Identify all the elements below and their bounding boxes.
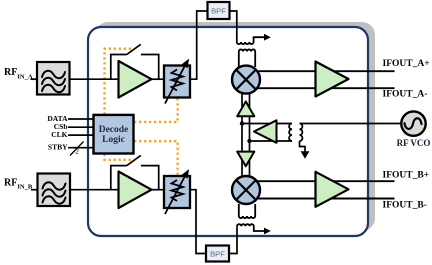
wire CSb <box>68 126 94 128</box>
wire filter B to amp B <box>70 189 120 191</box>
svg-text:Decode: Decode <box>99 125 129 135</box>
attenuator AT_B zigzag <box>172 180 184 201</box>
wire filter A to amp A <box>70 78 121 80</box>
wire T3 to RF VCO <box>300 123 402 125</box>
control dotted: decode to switch B <box>105 154 134 160</box>
chip body U1 <box>88 27 368 236</box>
node dot right rail <box>247 139 251 143</box>
arrow T2 primary <box>264 228 271 235</box>
wire T3 to ground <box>300 141 306 152</box>
transformer T2 primary (bottom) <box>237 224 265 231</box>
wire CLK <box>68 134 94 136</box>
attenuator AT_B arrow <box>165 176 185 214</box>
svg-text:CLK: CLK <box>51 130 67 139</box>
svg-text:IFOUT_B-: IFOUT_B- <box>383 201 427 211</box>
decode logic box <box>94 115 134 154</box>
IF amp B <box>316 172 349 207</box>
wire RF_IN_A to filter A <box>31 78 38 80</box>
bus slash STBY <box>70 142 84 156</box>
LO buffer left triangle <box>254 120 277 143</box>
amp A <box>119 61 152 98</box>
filter FL_A box <box>37 62 70 95</box>
node dot left rail <box>240 121 244 125</box>
transformer T1 secondary <box>239 49 255 67</box>
control dotted: decode to attenuator A <box>134 98 178 122</box>
switch SW_A (gain bypass) <box>111 44 159 79</box>
transformer T1 primary (top) <box>237 37 265 44</box>
LO transformer T3 left winding <box>289 124 292 142</box>
mixer B <box>232 176 260 204</box>
wire attenuator B to BPF B (down) <box>190 190 206 254</box>
attenuator AT_A zigzag <box>172 70 184 91</box>
control dotted: decode to switch A <box>105 49 134 115</box>
svg-text:RF VCO: RF VCO <box>397 138 431 148</box>
LO buffer down triangle <box>237 152 254 167</box>
mixer A output wires <box>250 71 395 88</box>
chip shadow <box>95 22 375 231</box>
svg-text:Logic: Logic <box>102 135 125 145</box>
wire STBY <box>68 147 94 149</box>
wire BPF A to transformer A <box>230 11 237 42</box>
wire BPF B to transformer B <box>229 226 237 253</box>
amp B <box>119 172 152 209</box>
svg-text:2: 2 <box>75 147 79 156</box>
attenuator AT_B box <box>164 176 190 208</box>
control dotted: decode to attenuator B <box>134 141 178 175</box>
svg-text:IFOUT_B+: IFOUT_B+ <box>383 171 430 181</box>
switch SW_B (gain bypass) <box>111 155 159 189</box>
wire attenuator A to BPF A (up) <box>190 11 208 79</box>
ground arrow <box>301 151 310 159</box>
arrow T1 primary <box>264 34 271 41</box>
filter FL_A waves <box>42 71 65 92</box>
wire amp B to attenuator B <box>151 189 164 191</box>
wire RF_IN_B to filter B <box>31 189 38 191</box>
LO rails between mixers <box>242 90 250 178</box>
IF amp A <box>316 62 349 97</box>
transformer T2 secondary (below mixer B) <box>239 204 255 218</box>
BPF B box <box>206 246 229 262</box>
svg-text:IFOUT_A+: IFOUT_A+ <box>383 59 430 69</box>
LO buffer up triangle <box>237 102 254 117</box>
wire amp A to attenuator A <box>151 78 164 80</box>
RF VCO sine <box>405 118 422 129</box>
filter FL_B box <box>38 174 71 207</box>
RF VCO circle <box>401 111 425 135</box>
mixer B output wires <box>250 181 395 198</box>
filter FL_B waves <box>43 182 66 203</box>
BPF A box <box>208 2 230 19</box>
svg-text:IFOUT_A-: IFOUT_A- <box>383 90 428 100</box>
svg-text:BPF: BPF <box>210 249 225 258</box>
wire DATA <box>68 118 94 120</box>
LO buffer input lines to transformer <box>242 124 292 142</box>
svg-text:BPF: BPF <box>211 6 226 15</box>
attenuator AT_A arrow <box>165 66 185 104</box>
LO transformer T3 right winding <box>300 124 303 142</box>
attenuator AT_A box <box>164 66 190 98</box>
mixer A <box>232 66 260 94</box>
svg-text:STBY: STBY <box>48 143 68 152</box>
